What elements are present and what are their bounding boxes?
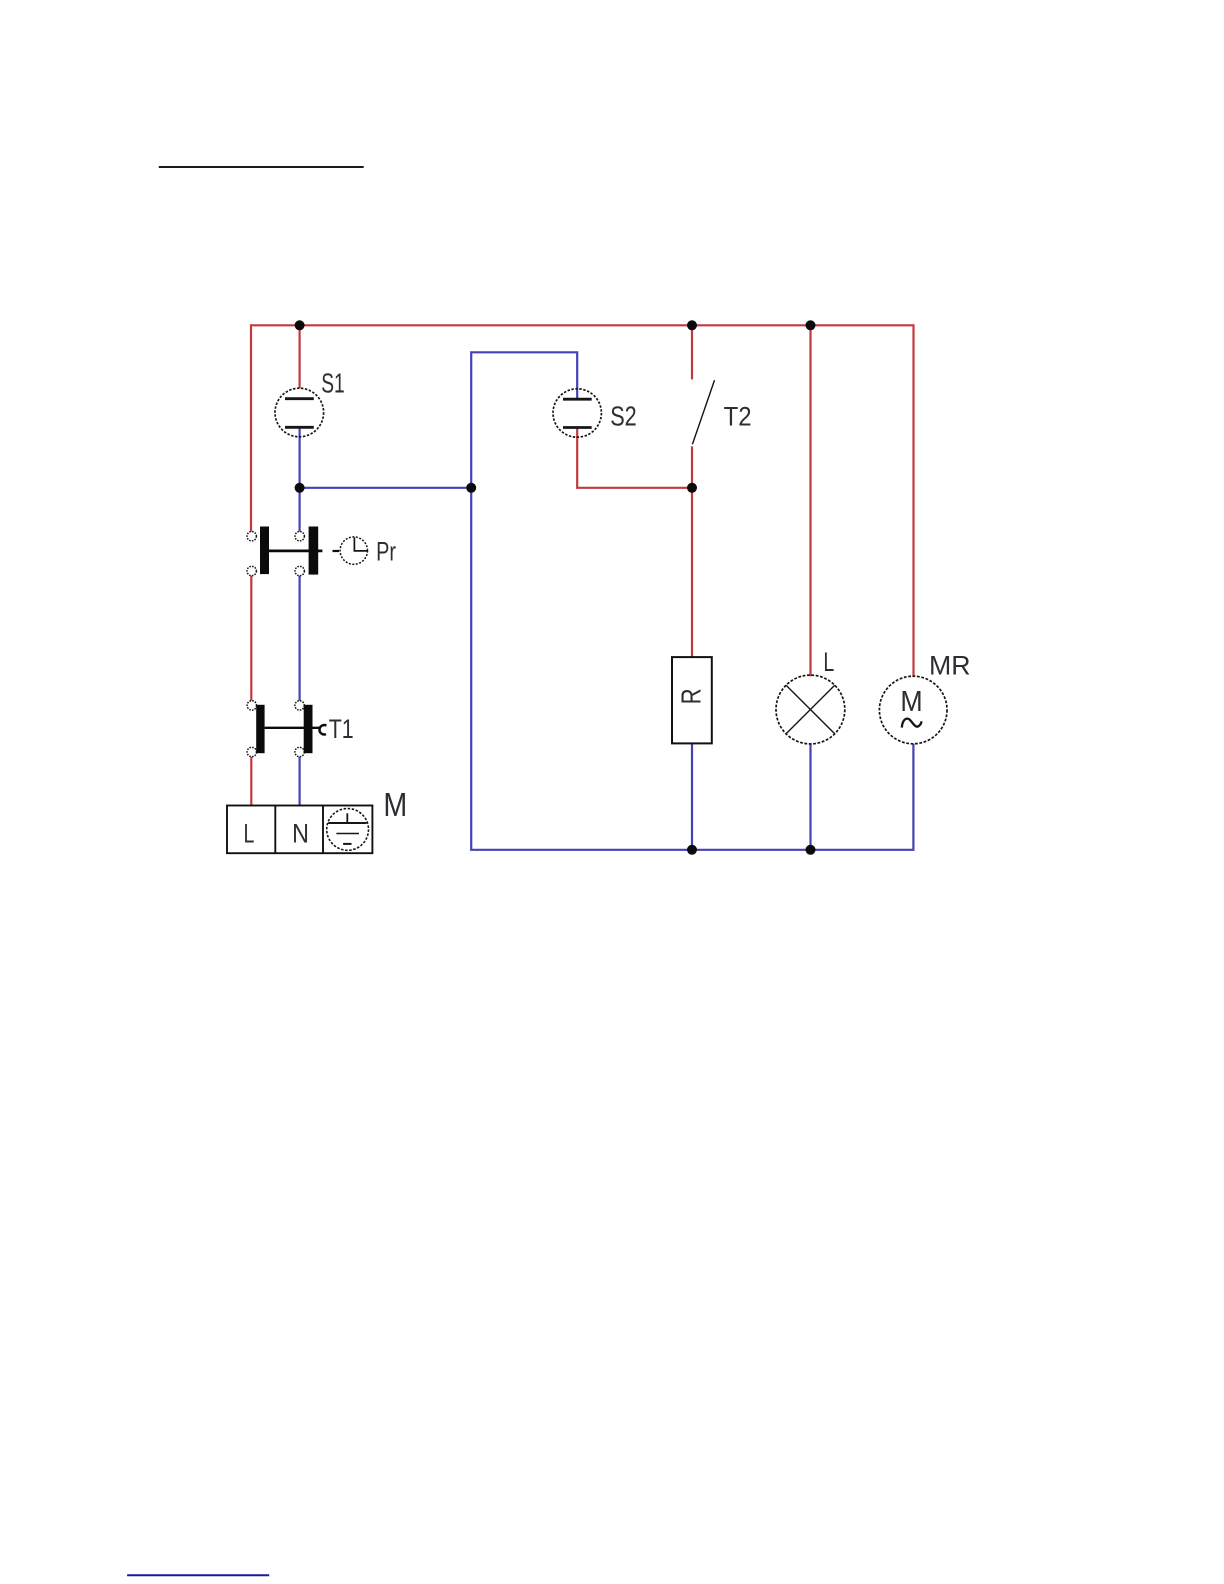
svg-text:R: R: [676, 688, 707, 704]
wire: blue horizontal node A to node B: [300, 487, 472, 489]
timer contact Pr : bridge bars: [260, 527, 269, 575]
lamp L: [776, 675, 845, 744]
svg-text:S2: S2: [610, 400, 637, 431]
svg-text:S1: S1: [321, 368, 345, 399]
switch S1 (pressure switch circle with chords): [275, 388, 324, 437]
thermostat contact T1 : terminal circles: [247, 701, 304, 757]
wire: red from T1 lower-left terminal down into terminal block M (L cell): [250, 757, 252, 806]
thermostat contact T1 : bridge bars: [256, 705, 264, 753]
thermostat contact T1 : crossbar: [265, 727, 321, 729]
node: junction dot top bus at T2: [687, 320, 697, 330]
motor MR: [879, 676, 947, 744]
wire: red upper segment of T2 branch: [691, 325, 693, 379]
switch T2 (open contact slash): [692, 380, 714, 444]
terminal block M : cell dividers: [274, 806, 276, 854]
svg-text:Pr: Pr: [376, 536, 396, 566]
resistor R: [672, 657, 712, 743]
svg-text:L: L: [244, 818, 255, 848]
svg-text:N: N: [292, 819, 309, 849]
svg-text:MR: MR: [929, 651, 971, 681]
timer contact Pr : terminal circles: [247, 532, 304, 576]
wire: blue from Pr lower-right terminal down to T1 upper-right terminal: [299, 576, 301, 701]
node: junction dot bottom bus at lamp: [806, 845, 816, 855]
terminal block M : outline: [227, 806, 372, 854]
ground (earth terminal in block): [327, 809, 369, 851]
wire: red drop from top bus to lamp L: [809, 325, 811, 676]
wire: red drop from top bus to S1: [299, 325, 301, 388]
AC tilde inside motor: [902, 719, 922, 728]
footer rule (navy underline bottom-left): [127, 1574, 269, 1576]
node A: junction dot below S1: [295, 483, 305, 493]
wire: blue loop from node B up over to S2 top: [471, 352, 577, 488]
timer Pr : dashed link to clock: [333, 550, 340, 552]
svg-text:M: M: [383, 786, 407, 823]
node: junction dot top bus at lamp: [806, 320, 816, 330]
wire: blue from S1 bottom chord down to node A: [299, 427, 301, 488]
svg-text:M: M: [900, 686, 922, 718]
node: junction dot T2/S2: [687, 483, 697, 493]
switch S2 (pressure switch circle with chords): [553, 389, 601, 437]
wire: blue from lamp L bottom to bottom bus: [809, 744, 811, 850]
node: junction dot bottom bus at R: [687, 845, 697, 855]
wire: red from S2 bottom chord down and right to T2 node: [577, 428, 692, 488]
svg-text:T1: T1: [329, 714, 354, 744]
wire: blue from node A down to Pr upper-right terminal: [299, 488, 301, 532]
svg-text:L: L: [823, 647, 834, 677]
wire: blue from T1 lower-right terminal down into terminal block M (N cell): [299, 757, 301, 806]
node: junction dot top bus at S1: [295, 320, 305, 330]
wire: red lower segment of T2 branch down to resistor R: [691, 446, 693, 657]
thermostat contact T1 : sensor hook: [320, 725, 327, 734]
wire: top red bus L(phase) from left corner to right corner, down to motor MR: [251, 325, 914, 677]
wire: blue from resistor R bottom to bottom bus: [691, 743, 693, 850]
heading rule (black overline top-left): [159, 166, 364, 168]
svg-text:T2: T2: [724, 401, 752, 431]
wire: blue neutral bus from node B down along bottom and up to motor MR: [471, 488, 913, 850]
wire: red from Pr lower-left terminal down to T1 upper-left terminal: [250, 576, 252, 701]
timer contact Pr : mechanical link crossbar: [269, 550, 322, 553]
node B: junction dot mid blue: [466, 483, 476, 493]
timer Pr : clock symbol: [340, 537, 367, 564]
